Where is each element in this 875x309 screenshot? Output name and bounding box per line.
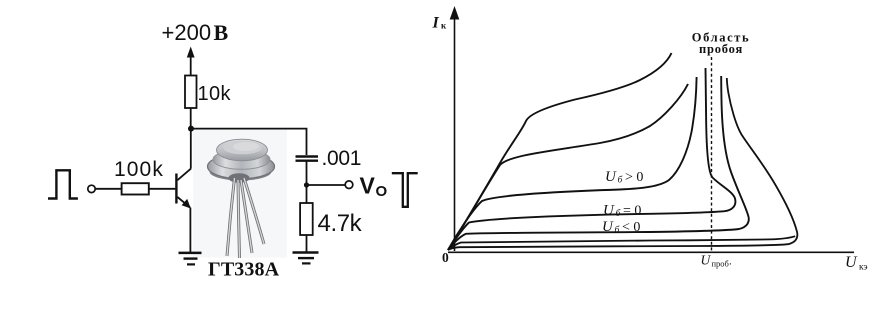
- curve label Ub<0: [602, 219, 640, 236]
- chart y-axis Ik: [450, 6, 460, 251]
- curve label Ub>0: [605, 169, 643, 186]
- curve 7 (outer breakdown loop): [448, 78, 797, 250]
- node: output junction: [304, 182, 309, 187]
- svg-text:.: .: [729, 256, 732, 268]
- label Ik: [432, 15, 448, 32]
- wire: output node to R3: [306, 185, 308, 203]
- wire: emitter to ground: [189, 208, 191, 253]
- output terminal: [345, 181, 353, 189]
- chart x-axis Uke: [448, 251, 854, 253]
- svg-text:В: В: [214, 20, 229, 45]
- svg-text:проб: проб: [712, 259, 729, 269]
- svg-text:.001: .001: [322, 147, 362, 170]
- wire: collector to node: [190, 129, 192, 169]
- input terminal: [88, 185, 95, 192]
- svg-text:кэ: кэ: [859, 263, 868, 273]
- photo: ГТ338А transistor can with leads: [193, 130, 287, 258]
- resistor R3 4.7k: [300, 203, 313, 235]
- wire: top rail from node to capacitor branch: [191, 129, 307, 155]
- node: collector junction: [188, 126, 194, 132]
- resistor R2 100k: [122, 183, 149, 194]
- curve 4 (Ub=0): [448, 68, 735, 250]
- svg-text:I: I: [432, 15, 440, 32]
- curve 5 (Ub<0): [448, 76, 749, 250]
- svg-text:пробоя: пробоя: [699, 42, 743, 56]
- breakdown region label: [692, 31, 750, 56]
- resistor R1 10k: [185, 76, 197, 109]
- svg-text:к: к: [441, 21, 447, 31]
- dashed line at breakdown voltage: [711, 57, 713, 252]
- svg-text:U: U: [602, 219, 614, 235]
- svg-text:V: V: [360, 173, 376, 199]
- curve 1 (highest base drive): [448, 53, 672, 250]
- svg-text:U: U: [701, 253, 712, 268]
- svg-text:U: U: [603, 203, 615, 219]
- svg-text:U: U: [845, 254, 858, 271]
- curve 3 (Ub>0): [448, 77, 697, 250]
- supply label +200 В: [162, 20, 229, 45]
- svg-text:= 0: = 0: [623, 204, 641, 219]
- svg-text:100k: 100k: [114, 158, 164, 181]
- wire: R3 to ground: [306, 235, 308, 252]
- svg-text:+200: +200: [162, 20, 212, 45]
- svg-text:4.7k: 4.7k: [318, 210, 363, 237]
- wire: R1 to collector node: [190, 108, 192, 130]
- label Vo: [360, 173, 388, 201]
- wire: output node to output terminal: [307, 184, 346, 186]
- ground (output side): [293, 253, 319, 264]
- svg-text:10k: 10k: [198, 83, 232, 105]
- label Uprob: [701, 253, 733, 269]
- ground (emitter): [179, 253, 202, 265]
- wire: R2 to base: [149, 188, 176, 190]
- input waveform (positive pulse): [48, 170, 78, 198]
- curve 2: [448, 84, 688, 250]
- svg-text:> 0: > 0: [625, 170, 643, 185]
- curve label Ub=0: [603, 203, 641, 220]
- svg-text:< 0: < 0: [622, 220, 640, 235]
- label Uke: [845, 254, 868, 273]
- supply arrow: [187, 47, 195, 76]
- transistor Q1 symbol: [175, 169, 191, 209]
- wire: input terminal to R2: [95, 188, 121, 190]
- svg-text:U: U: [605, 169, 617, 185]
- wire: capacitor to output node: [306, 162, 308, 187]
- capacitor C1: [296, 157, 319, 161]
- curve 6 (low drive): [448, 236, 795, 250]
- svg-text:O: O: [376, 183, 388, 200]
- output waveform (negative pulse): [392, 173, 418, 207]
- svg-text:0: 0: [442, 250, 449, 265]
- svg-text:ГТ338А: ГТ338А: [208, 259, 280, 281]
